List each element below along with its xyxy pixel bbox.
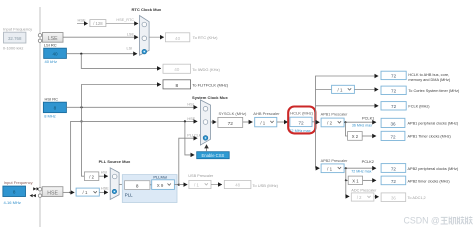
svg-text:X 2: X 2 <box>352 134 359 139</box>
svg-text:72 MHz max: 72 MHz max <box>351 170 371 174</box>
svg-text:FCLK (MHz): FCLK (MHz) <box>408 105 430 109</box>
svg-text:RTC Clock Mux: RTC Clock Mux <box>132 7 162 12</box>
svg-text:/ 1: / 1 <box>327 167 332 172</box>
svg-text:PLLCLK: PLLCLK <box>187 133 202 137</box>
svg-text:HCLK to AHB bus, core,: HCLK to AHB bus, core, <box>408 73 449 77</box>
svg-text:X 1: X 1 <box>352 179 359 184</box>
svg-text:40 kHz: 40 kHz <box>45 59 57 64</box>
svg-text:PCLK1: PCLK1 <box>362 116 374 121</box>
svg-text:72: 72 <box>298 120 304 126</box>
svg-text:PCLK2: PCLK2 <box>362 159 374 164</box>
svg-text:HSI: HSI <box>187 103 193 107</box>
svg-text:To USB (MHz): To USB (MHz) <box>252 183 278 188</box>
svg-text:8: 8 <box>176 83 179 88</box>
svg-text:36 MHz max: 36 MHz max <box>352 123 372 127</box>
svg-text:48: 48 <box>235 183 240 188</box>
svg-text:/ 2: / 2 <box>327 121 332 126</box>
svg-text:HSE_RTC: HSE_RTC <box>116 18 134 22</box>
svg-text:36: 36 <box>390 121 396 126</box>
svg-text:PLLMul: PLLMul <box>153 174 167 179</box>
svg-text:USB Prescaler: USB Prescaler <box>188 174 214 178</box>
svg-text:4-16 MHz: 4-16 MHz <box>4 200 21 205</box>
svg-text:HSI RC: HSI RC <box>45 97 59 102</box>
svg-text:/ 1: / 1 <box>260 120 265 125</box>
svg-text:APB2 Prescaler: APB2 Prescaler <box>321 159 349 163</box>
svg-text:X 9: X 9 <box>157 183 164 188</box>
svg-text:/ 2: / 2 <box>89 174 94 179</box>
svg-text:Input Frequency: Input Frequency <box>3 27 32 32</box>
svg-text:40: 40 <box>174 67 180 72</box>
svg-text:40: 40 <box>175 36 181 41</box>
svg-text:Input Frequency: Input Frequency <box>4 180 33 185</box>
svg-text:APB1 peripheral clocks (MHz): APB1 peripheral clocks (MHz) <box>408 122 459 126</box>
svg-text:0-1000 kHz: 0-1000 kHz <box>3 46 23 51</box>
svg-text:72: 72 <box>391 89 397 94</box>
svg-text:LSE: LSE <box>127 32 135 36</box>
svg-text:Enable CSS: Enable CSS <box>201 153 224 158</box>
svg-text:PLL: PLL <box>125 192 133 197</box>
svg-text:72: 72 <box>391 74 397 79</box>
svg-text:To ADC1,2: To ADC1,2 <box>408 196 426 200</box>
svg-text:32.768: 32.768 <box>8 36 22 41</box>
svg-text:/ 2: / 2 <box>357 195 362 200</box>
svg-text:memory and DMA (MHz): memory and DMA (MHz) <box>408 78 451 82</box>
svg-text:APB1 Timer clocks (MHz): APB1 Timer clocks (MHz) <box>408 135 452 139</box>
svg-text:/ 1: / 1 <box>194 183 199 188</box>
svg-text:SYSCLK (MHz): SYSCLK (MHz) <box>219 111 247 116</box>
svg-text:72: 72 <box>391 179 397 184</box>
svg-text:/ 1: / 1 <box>338 88 343 93</box>
svg-text:72: 72 <box>228 121 234 127</box>
svg-text:LSI RC: LSI RC <box>44 43 57 48</box>
svg-text:APB2 peripheral clocks (MHz): APB2 peripheral clocks (MHz) <box>408 167 459 171</box>
svg-text:8 MHz: 8 MHz <box>44 114 56 119</box>
svg-text:8: 8 <box>54 106 57 111</box>
svg-text:HSI: HSI <box>101 171 107 175</box>
svg-text:AHB Prescaler: AHB Prescaler <box>253 111 280 116</box>
svg-text:72: 72 <box>390 134 396 139</box>
svg-text:8: 8 <box>13 190 16 195</box>
svg-text:PLL Source Mux: PLL Source Mux <box>99 159 131 164</box>
svg-text:72: 72 <box>391 166 397 171</box>
svg-text:HSE: HSE <box>101 186 109 190</box>
svg-text:/ 1: / 1 <box>83 190 88 195</box>
svg-text:HCLK (MHz): HCLK (MHz) <box>290 110 313 115</box>
svg-text:System Clock Mux: System Clock Mux <box>192 95 229 100</box>
svg-text:40: 40 <box>52 52 58 57</box>
svg-text:ADC Prescaler: ADC Prescaler <box>351 188 377 192</box>
svg-text:36: 36 <box>391 196 396 201</box>
svg-text:APB1 Prescaler: APB1 Prescaler <box>321 113 349 117</box>
svg-text:APB2 timer clocks (MHz): APB2 timer clocks (MHz) <box>408 179 451 183</box>
svg-text:To RTC (KHz): To RTC (KHz) <box>193 35 218 40</box>
svg-text:LSE: LSE <box>48 36 58 42</box>
svg-text:HSE: HSE <box>187 117 195 121</box>
svg-text:HSE: HSE <box>47 190 58 196</box>
svg-text:HSE: HSE <box>78 18 87 23</box>
svg-text:CSDN @: CSDN @ <box>404 216 440 226</box>
svg-text:To FLITFCLK (MHz): To FLITFCLK (MHz) <box>192 83 228 88</box>
svg-text:To Cortex System timer (MHz): To Cortex System timer (MHz) <box>408 89 460 93</box>
svg-text:To IWDG (KHz): To IWDG (KHz) <box>192 67 220 72</box>
svg-text:LSI: LSI <box>127 47 133 51</box>
svg-text:72: 72 <box>391 104 397 109</box>
svg-text:/ 128: / 128 <box>93 21 103 26</box>
